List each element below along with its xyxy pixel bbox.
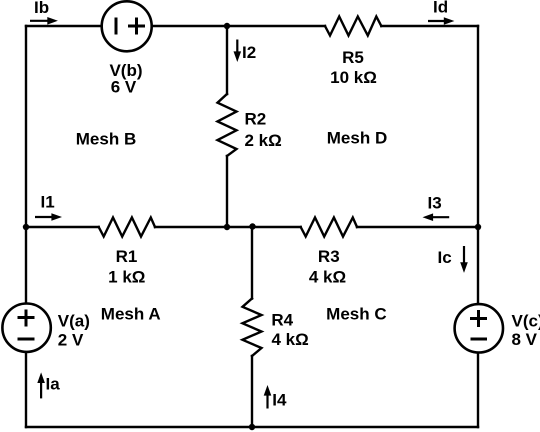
resistor R4 (243, 299, 262, 357)
svg-text:Ia: Ia (46, 375, 61, 394)
resistor R2 (218, 94, 237, 156)
wire: R2 to middle row node (226, 156, 228, 227)
svg-text:I2: I2 (242, 43, 256, 62)
current arrow Ic (460, 246, 468, 273)
svg-text:Ic: Ic (438, 248, 452, 267)
svg-text:8 V: 8 V (512, 330, 538, 349)
current arrow Id (428, 17, 454, 25)
wire: top side, left corner to V(b) (26, 25, 101, 27)
wire: middle row, R3 to right side (357, 226, 478, 228)
svg-text:Mesh A: Mesh A (101, 305, 161, 324)
wire: R4 branch from middle row node (251, 227, 253, 299)
svg-text:R2: R2 (245, 110, 267, 129)
svg-text:Ib: Ib (34, 0, 49, 17)
wire: top side, R5 to top-right corner (381, 25, 478, 27)
voltage source V(a) 2 V (2, 304, 50, 352)
svg-text:I4: I4 (272, 390, 287, 409)
svg-text:I1: I1 (41, 193, 55, 212)
junction: R2 bottom node (224, 224, 230, 230)
svg-text:V(c): V(c) (512, 312, 540, 331)
resistor R3 (301, 218, 357, 237)
wire: R4 to bottom side (251, 356, 253, 427)
resistor R5 (325, 17, 381, 36)
wire: V(a) to bottom-left corner (25, 353, 27, 427)
current arrow Ia (37, 372, 45, 398)
svg-text:R3: R3 (318, 247, 340, 266)
svg-text:Mesh D: Mesh D (327, 129, 387, 148)
current arrow I3 (423, 213, 450, 221)
junction: R4 top node (249, 223, 255, 229)
wire: R2 branch from top node (226, 26, 228, 94)
wire: left side, top-left corner down to V(a) (25, 26, 27, 303)
svg-text:I3: I3 (428, 194, 442, 213)
junction: left middle node (23, 224, 29, 230)
current arrow I1 (35, 213, 62, 221)
svg-text:V(a): V(a) (58, 312, 90, 331)
wire: right side, top-right corner down to V(c) (477, 26, 479, 303)
wire: middle row, left side to R1 (26, 226, 99, 228)
svg-text:1 kΩ: 1 kΩ (108, 268, 145, 287)
svg-text:4 kΩ: 4 kΩ (309, 268, 346, 287)
svg-text:Mesh C: Mesh C (326, 305, 386, 324)
svg-text:R4: R4 (271, 311, 293, 330)
svg-text:R1: R1 (116, 247, 138, 266)
wire: top side, V(b) to R5 (153, 25, 326, 27)
svg-text:Id: Id (433, 0, 448, 17)
svg-text:4 kΩ: 4 kΩ (272, 330, 309, 349)
svg-text:6 V: 6 V (111, 78, 137, 97)
voltage source V(c) 8 V (455, 304, 503, 352)
current arrow I2 (234, 40, 242, 63)
svg-text:Mesh B: Mesh B (76, 130, 136, 149)
current arrow I4 (264, 385, 272, 409)
wire: bottom side (26, 426, 478, 428)
current arrow Ib (30, 17, 58, 25)
wire: middle row, R1 to R3 (155, 226, 301, 228)
junction: top node (R2 to top wire) (224, 23, 230, 29)
svg-text:10 kΩ: 10 kΩ (330, 68, 377, 87)
voltage source V(b) 6 V (102, 1, 152, 51)
junction: R4 bottom node (249, 424, 255, 430)
wire: right side, V(c) to bottom-right corner (477, 354, 479, 428)
svg-text:R5: R5 (342, 48, 364, 67)
junction: right middle node (475, 224, 481, 230)
resistor R1 (99, 218, 155, 237)
svg-text:2 V: 2 V (58, 331, 84, 350)
svg-text:2 kΩ: 2 kΩ (245, 131, 282, 150)
